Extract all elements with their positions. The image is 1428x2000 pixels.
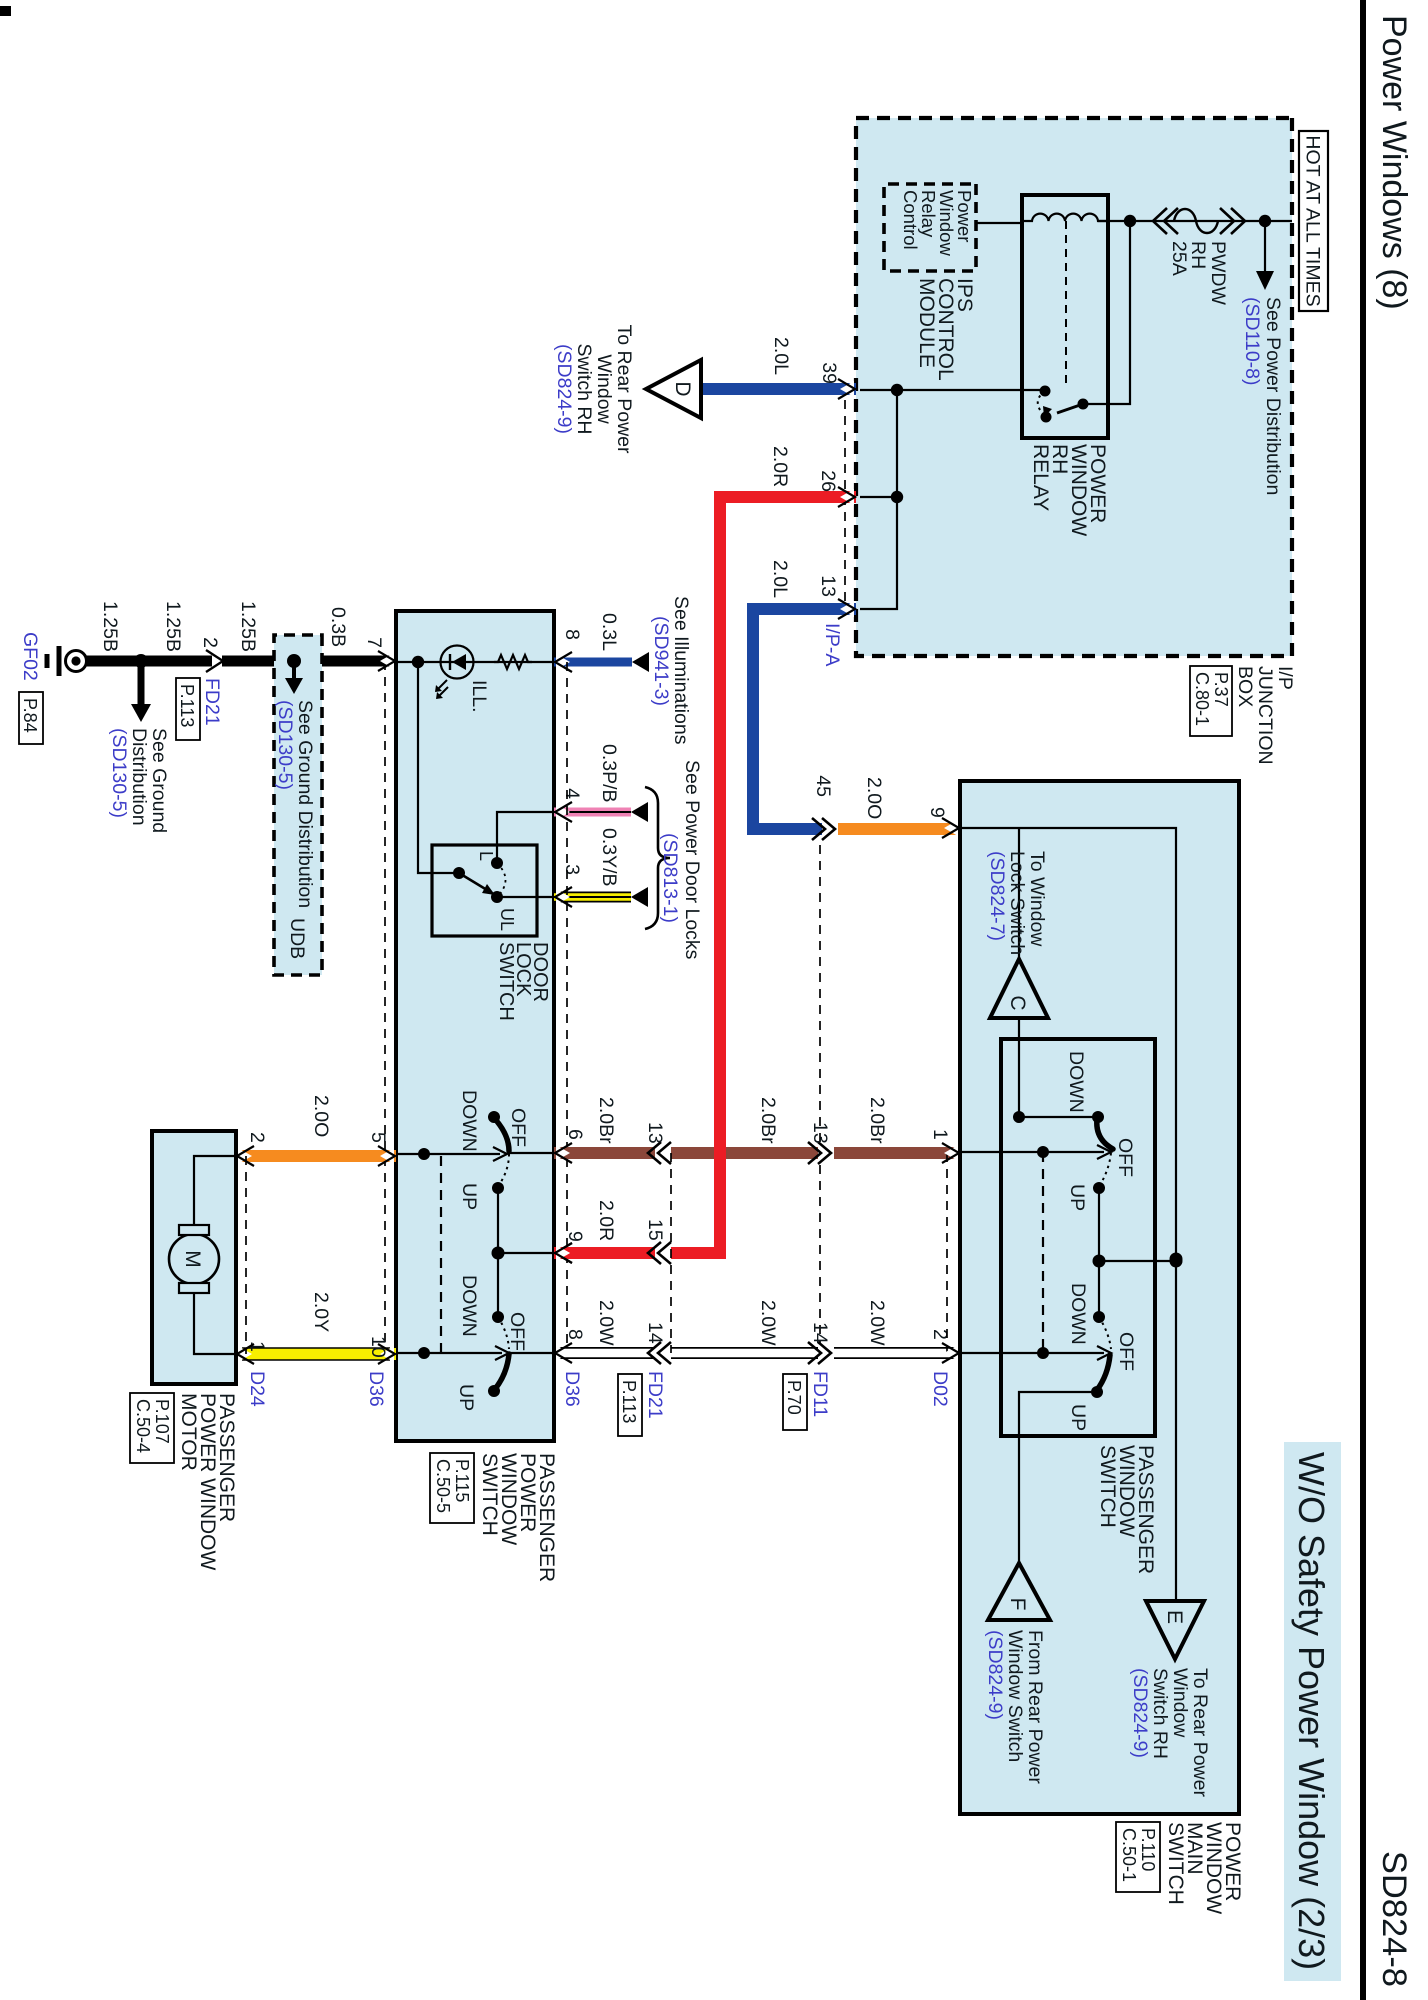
red wire overlay at brown crossing [554,497,720,1253]
svg-text:MODULE: MODULE [915,278,938,368]
svg-text:I/P-A: I/P-A [821,623,843,666]
svg-text:SWITCH: SWITCH [478,1453,501,1536]
door lock UL contact [491,891,503,903]
D02 connector dashed line [946,1153,948,1353]
main mechanical link dashed [1042,1152,1044,1353]
svg-text:SWITCH: SWITCH [1164,1822,1187,1905]
svg-text:UP: UP [1066,1184,1088,1211]
svg-text:D36: D36 [561,1371,583,1407]
I/P junction box (dashed) [856,118,1292,656]
wire 2.0R pin26 (red) [554,497,856,1253]
svg-text:2.0O: 2.0O [310,1095,332,1137]
UP rail to feed [1098,1188,1100,1317]
pole1 travel dotted arc [1100,1153,1111,1185]
svg-text:M: M [181,1250,204,1268]
pole1 pivot to pin6 segment [507,1152,554,1154]
ground branch junction dot [134,654,148,668]
IPS CONTROL MODULE label [915,278,976,381]
relay coil [1022,214,1108,221]
svg-text:FD21: FD21 [644,1371,666,1419]
P.110 C.50-1 label box [1116,1822,1160,1892]
pin 9 chevron red at passenger box [555,1243,572,1263]
supply node dot [1259,215,1271,227]
svg-text:HOT AT ALL TIMES: HOT AT ALL TIMES [1302,135,1324,306]
svg-text:(SD130-5): (SD130-5) [274,700,296,790]
ground symbol GF02 [47,646,87,676]
svg-text:2.0O: 2.0O [863,777,885,819]
svg-text:1: 1 [929,1129,951,1140]
svg-text:Power Windows (8): Power Windows (8) [1375,15,1413,310]
svg-text:15: 15 [644,1219,666,1241]
svg-text:13: 13 [644,1122,666,1144]
svg-text:DOWN: DOWN [458,1090,480,1152]
From Rear Power Window Switch label [984,1630,1046,1784]
pole2 travel dotted arc [498,1317,509,1349]
motor label [177,1393,238,1570]
svg-text:14: 14 [644,1322,666,1344]
HOT AT ALL TIMES label [1299,131,1328,311]
header rule [1360,0,1366,2000]
See Illuminations label [650,596,692,745]
UDB branch arrow [292,661,296,680]
pole1 UP contact [492,1182,504,1194]
svg-text:2: 2 [199,637,221,648]
See Power Door Locks label [659,760,703,960]
POWER WINDOW MAIN SWITCH label [1164,1822,1244,1914]
passenger box left-edge connector dashed line [384,661,386,1354]
pole2 rail junction dot [418,1347,430,1359]
svg-text:(SD824-9): (SD824-9) [553,344,575,434]
svg-text:Window: Window [593,354,615,424]
svg-text:0.3B: 0.3B [327,607,349,647]
svg-text:Switch RH: Switch RH [1149,1668,1171,1759]
wire 2.0O orange from connector 45 to main switch pin 9 [832,823,960,835]
svg-text:JUNCTION: JUNCTION [1254,666,1276,765]
svg-text:9: 9 [926,807,948,818]
connector FD21 chevron on ground wire [206,650,223,672]
svg-text:UP: UP [455,1384,477,1411]
svg-text:2.0R: 2.0R [595,1200,617,1241]
incoming arrow for 0.3Y/B [631,887,648,907]
P.84 label box [19,692,43,744]
svg-text:Lock Switch: Lock Switch [1006,851,1028,955]
P.70 label box [783,1374,807,1430]
svg-text:GF02: GF02 [19,632,41,681]
svg-text:RELAY: RELAY [1029,444,1052,511]
pin 26 chevron [838,487,855,507]
svg-text:2.0Br: 2.0Br [866,1097,888,1144]
page corner mark [0,6,11,16]
svg-text:See Ground: See Ground [148,728,170,833]
svg-text:10: 10 [367,1336,389,1358]
svg-text:2.0L: 2.0L [769,560,791,598]
ILL junction dot [412,656,424,668]
wire 2.0L pin13 (blue) to connector 45 [753,609,856,829]
FD11 in-line connector on brown [808,1142,834,1164]
svg-text:P.70: P.70 [784,1380,804,1415]
incoming arrow for 0.3P/B [631,802,648,822]
svg-text:2.0W: 2.0W [866,1300,888,1346]
svg-text:D: D [671,381,694,396]
svg-text:2.0L: 2.0L [770,337,792,375]
resistor [494,655,532,669]
C triangle branch wire [1018,828,1020,959]
P.115 C.50-5 label box [430,1453,474,1523]
motor pin 1 chevron [237,1344,254,1364]
svg-text:D36: D36 [365,1371,387,1407]
in-line connector 45 chevrons [812,818,838,840]
inner passenger window switch box [1001,1039,1155,1436]
wire 0.3L pin 8 (blue) [554,658,632,667]
fuse PWDW RH 25A [1174,209,1218,233]
svg-text:P.84: P.84 [20,698,40,733]
svg-text:39: 39 [818,362,840,384]
svg-text:SWITCH: SWITCH [1096,1445,1119,1528]
pin 7 chevron [378,651,395,671]
svg-text:OFF: OFF [506,1312,528,1351]
mechanical link dashed [440,1156,442,1352]
triangle D to rear power window switch RH [646,360,701,418]
wire C to pole1 [1018,1018,1020,1117]
svg-text:0.3Y/B: 0.3Y/B [598,828,620,887]
svg-text:C.50-4: C.50-4 [133,1399,153,1453]
svg-text:P.113: P.113 [619,1380,639,1423]
pole2 common rail from pin 2 [960,1352,1104,1354]
svg-text:(SD824-7): (SD824-7) [986,851,1008,941]
ILL lamp feed line [396,661,554,663]
svg-text:To Rear Power: To Rear Power [613,325,635,454]
To Rear Power Window Switch RH label [1129,1668,1211,1797]
branch arrow See Power Distribution [1264,221,1266,273]
motor internal wires [194,1156,236,1225]
main feed wire from pin 9 [960,828,1176,1601]
wire 2.0Y yellow pin10 to motor pin1 [236,1348,396,1360]
svg-text:ILL.: ILL. [468,680,490,713]
in-line connector 15 on red [648,1242,671,1264]
relay common to supply node wire [1083,221,1130,404]
main switch pin 9 chevron [942,818,959,838]
svg-text:To Window: To Window [1026,851,1048,947]
svg-text:P.37: P.37 [1211,672,1231,707]
wire 2.0W white pin8 to main switch pin2 [554,1347,960,1359]
relay travel dotted arc [1038,391,1046,417]
svg-text:UP: UP [1067,1404,1089,1431]
svg-text:13: 13 [809,1122,831,1144]
W/O Safety strip [1284,1442,1341,1981]
svg-text:45: 45 [812,775,834,797]
svg-text:(SD130-5): (SD130-5) [108,728,130,818]
triangle F from rear power window switch [988,1563,1050,1620]
pin 13 chevron [838,599,855,619]
svg-text:0.3P/B: 0.3P/B [598,744,620,803]
PASSENGER WINDOW SWITCH label [1096,1445,1157,1574]
motor pin 2 chevron [237,1146,254,1166]
svg-text:P.110: P.110 [1138,1828,1158,1871]
svg-text:0.3L: 0.3L [598,613,620,651]
svg-text:DOWN: DOWN [1065,1051,1087,1113]
svg-text:See Power Distribution: See Power Distribution [1262,297,1284,495]
pole1 switch arm [1097,1119,1113,1149]
pin 6 chevron [555,1143,572,1163]
pin 3 chevron [555,887,572,907]
pole1 contacts link [1019,1116,1098,1118]
svg-text:OFF: OFF [507,1108,529,1147]
svg-text:See Illuminations: See Illuminations [670,596,692,745]
svg-text:26: 26 [817,470,839,492]
svg-text:Distribution: Distribution [128,728,150,826]
svg-text:8: 8 [564,1329,586,1340]
svg-text:1.25B: 1.25B [162,601,184,652]
pin 9 chevron red at passenger box (redraw) [555,1243,572,1263]
svg-text:2.0Y: 2.0Y [310,1292,332,1332]
brace for power door locks [645,787,670,929]
svg-text:DOWN: DOWN [1067,1283,1089,1345]
door lock switch box [432,845,537,936]
svg-text:See Ground Distribution: See Ground Distribution [294,700,316,908]
supply wire from box top [1098,220,1292,222]
svg-text:L: L [476,851,496,861]
svg-text:Window: Window [1169,1668,1191,1738]
fusible link connector chevrons lower [1153,208,1178,234]
FD21 connector dashed line [670,1153,672,1353]
svg-text:E: E [1163,1610,1186,1624]
svg-text:F: F [1006,1598,1029,1611]
svg-text:2: 2 [246,1132,268,1143]
svg-text:7: 7 [363,637,385,648]
passenger power window motor box [152,1131,236,1384]
main switch pin 1 chevron [942,1143,959,1163]
svg-text:UP: UP [458,1183,480,1210]
pin 4 chevron [555,802,572,822]
motor M circle [169,1234,219,1284]
svg-text:2.0Br: 2.0Br [595,1097,617,1144]
P.107 C.50-4 label box [130,1393,174,1463]
svg-text:P.113: P.113 [177,684,197,727]
svg-text:FD11: FD11 [809,1371,831,1417]
I/P JUNCTION BOX label [1234,666,1296,765]
svg-text:FD21: FD21 [201,678,223,726]
pole1 common rail from pin 1 [960,1151,1104,1153]
svg-text:D24: D24 [246,1371,268,1407]
pin 8 chevron white wire [555,1343,572,1363]
svg-text:C.80-1: C.80-1 [1192,672,1212,726]
svg-text:OFF: OFF [1115,1332,1137,1371]
pole2 DOWN contact [1093,1311,1105,1323]
feed junction to E [1170,1253,1183,1266]
main switch pin 2 chevron [942,1343,959,1363]
svg-text:Switch RH: Switch RH [573,343,595,434]
svg-text:UDB: UDB [286,918,308,959]
svg-text:SD824-8: SD824-8 [1375,1851,1413,1987]
svg-text:I/P: I/P [1274,666,1296,690]
svg-text:Window Switch: Window Switch [1004,1630,1026,1762]
svg-text:25A: 25A [1168,241,1190,276]
svg-text:(SD824-9): (SD824-9) [1129,1668,1151,1758]
POWER WINDOW RH RELAY label [1029,444,1109,536]
pole2 travel dotted arc [1099,1317,1111,1349]
passenger switch label [478,1453,558,1582]
svg-text:OFF: OFF [1114,1138,1136,1177]
svg-text:2.0Br: 2.0Br [757,1097,779,1144]
passenger pole1 common rail [396,1153,500,1155]
svg-text:UL: UL [497,908,517,931]
FD11 in-line connector on white [808,1342,834,1364]
door lock L contact [491,857,503,869]
pole2 pivot to pin8 segment [509,1352,554,1354]
wire 2.0Br brown pin6 to main switch pin1 [554,1147,960,1159]
passenger power window switch box [396,611,554,1441]
svg-text:2.0R: 2.0R [769,446,791,487]
incoming arrow for 0.3L [632,652,649,672]
To Window Lock Switch label [986,851,1048,955]
Power Window Relay Control dashed box [884,184,976,271]
svg-text:W/O Safety Power Window (2/3): W/O Safety Power Window (2/3) [1291,1452,1332,1970]
door lock travel arc [497,863,506,897]
svg-text:P.107: P.107 [152,1399,172,1444]
svg-text:Control: Control [900,190,921,250]
wire relay to control box [976,222,1022,224]
pin 10 chevron [378,1344,395,1364]
ground wire 1.25B (thick black) [86,656,396,667]
svg-text:6: 6 [564,1129,586,1140]
svg-text:3: 3 [561,864,583,875]
pole2 common rail [396,1352,502,1354]
power window main switch box [960,781,1239,1814]
svg-text:14: 14 [809,1322,831,1344]
svg-text:P.115: P.115 [452,1459,472,1502]
triangle E to rear power window switch RH [1146,1601,1204,1659]
junction box internal feed wires [860,389,1045,391]
pole2 DOWN contact [492,1311,504,1323]
svg-text:9: 9 [564,1231,586,1242]
DOOR LOCK SWITCH label [495,942,551,1021]
UDB dashed box [274,635,322,975]
wire 0.3Y/B pin 3 (yellow/black) [554,892,631,903]
fusible link connector chevrons upper [1220,208,1245,234]
svg-text:8: 8 [561,629,583,640]
relay contacts [1040,386,1051,397]
svg-text:(SD813-1): (SD813-1) [659,833,681,923]
door lock common feed wire [418,662,459,873]
P.113 label box mid [618,1374,642,1436]
wire 2.0O orange pin5 to motor pin2 [236,1150,396,1162]
pin 5 chevron [378,1146,395,1166]
pin 39 chevron [838,379,855,399]
UDB junction dot [287,654,301,668]
door lock arm [459,873,487,890]
UP/DOWN feed line to pin 9 [497,1188,499,1317]
svg-text:4: 4 [561,788,583,799]
svg-text:See Power Door Locks: See Power Door Locks [681,760,703,960]
svg-text:DOWN: DOWN [458,1275,480,1337]
svg-text:(SD824-9): (SD824-9) [984,1630,1006,1720]
see ground distribution branch arrow [138,661,145,706]
feed drop to UP rail [1099,1260,1176,1262]
svg-text:C.50-1: C.50-1 [1119,1828,1139,1882]
door lock UL wire to pin 3 [497,896,554,898]
svg-text:1.25B: 1.25B [99,601,121,652]
svg-text:(SD110-8): (SD110-8) [1241,297,1263,386]
svg-text:D02: D02 [929,1371,951,1407]
pole1 rail junction dot [418,1148,430,1160]
svg-text:C.50-5: C.50-5 [433,1459,453,1513]
FD21 in-line connector on brown [648,1142,671,1164]
P.37 C.80-1 label box [1190,666,1232,736]
pole2 switch arm [1097,1355,1110,1390]
pole1 switch arm [495,1119,509,1151]
svg-text:5: 5 [367,1132,389,1143]
svg-text:1.25B: 1.25B [237,601,259,652]
pole1 UP contact [1093,1182,1105,1194]
relay switch arm [1057,404,1083,413]
svg-text:To Rear Power: To Rear Power [1189,1668,1211,1797]
svg-text:BOX: BOX [1234,666,1256,707]
pole2 UP wire to F [1019,1392,1097,1563]
door lock L wire to pin 4 [497,812,554,863]
motor D24 connector dashed line [245,1156,247,1354]
pin 8 chevron [555,652,572,672]
pole1 travel dotted arc [499,1154,509,1185]
svg-text:From Rear Power: From Rear Power [1024,1630,1046,1784]
FD21 in-line connector on white [648,1342,671,1364]
relay box [1022,195,1108,438]
relay internal dashed link [1065,221,1067,384]
pole2 UP contact [1091,1386,1103,1398]
door lock common contact [453,867,465,879]
passenger box right-edge connector dashed line [566,662,568,1353]
svg-text:(SD941-3): (SD941-3) [650,616,672,706]
connector 45 dashed line down to FD11 [819,845,821,1353]
svg-text:PWDW: PWDW [1207,241,1229,305]
wire 2.0L pin39 (blue) [698,383,856,395]
pole2 switch arm [495,1354,509,1389]
svg-text:2.0W: 2.0W [757,1300,779,1346]
ILL lamp (LED) [435,646,474,700]
wire 0.3P/B pin 4 (pink/black) [554,808,631,817]
svg-text:C: C [1006,995,1029,1010]
I/P-A connector dashed line [844,400,846,609]
triangle C to window lock switch [990,959,1048,1018]
svg-text:SWITCH: SWITCH [495,942,517,1021]
P.113 label box [176,678,200,740]
svg-text:13: 13 [817,575,839,597]
motor brushes [179,1225,209,1235]
svg-text:2.0W: 2.0W [595,1300,617,1346]
svg-text:MOTOR: MOTOR [177,1393,200,1471]
